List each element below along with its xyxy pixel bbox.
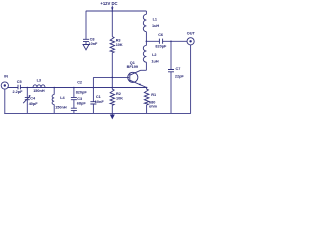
svg-text:10nF: 10nF (89, 42, 99, 46)
svg-text:OUT: OUT (187, 32, 196, 36)
wire C2 top lead (73, 88, 75, 98)
capacitor C1 (90, 102, 96, 104)
wire +12V tick (111, 6, 113, 11)
svg-text:ohm: ohm (149, 104, 158, 108)
svg-text:1uH: 1uH (151, 59, 158, 63)
svg-text:820pF: 820pF (76, 90, 88, 94)
inductor L2 (145, 41, 147, 45)
svg-text:820pF: 820pF (155, 45, 167, 49)
wire C1 upper lead (92, 77, 94, 101)
svg-text:C2: C2 (77, 80, 82, 84)
capacitor C5 (18, 85, 20, 90)
wire collector (141, 69, 147, 71)
junction C1/mid rail (93, 87, 95, 89)
wire base line (93, 76, 129, 78)
wire L4 top lead (53, 88, 55, 95)
svg-text:C8: C8 (90, 38, 95, 42)
wire ground stub (111, 113, 113, 114)
svg-text:IN: IN (4, 74, 8, 78)
svg-text:L1: L1 (153, 18, 157, 22)
svg-text:R2: R2 (116, 92, 121, 96)
capacitor C7 (168, 70, 174, 72)
svg-text:2.2pF: 2.2pF (13, 90, 24, 94)
wire bias column (111, 11, 113, 88)
svg-text:10K: 10K (116, 43, 123, 47)
wire IN ground drop (4, 89, 6, 113)
connector OUT (187, 38, 194, 45)
resistor R2 (110, 89, 115, 105)
svg-text:10K: 10K (116, 96, 123, 100)
resistor R3 (110, 37, 115, 53)
junction 12V node (112, 10, 114, 12)
svg-text:1uH: 1uH (152, 24, 159, 28)
inductor L3 (33, 85, 45, 88)
svg-text:C5: C5 (17, 80, 22, 84)
junction collector node (146, 41, 148, 43)
inductor L1 (145, 11, 147, 14)
wire OUT ground drop (190, 45, 192, 114)
svg-text:+12V DC: +12V DC (100, 1, 117, 6)
wire ground rail (4, 112, 191, 114)
transistor Q1 (128, 72, 138, 82)
svg-text:L2: L2 (152, 53, 156, 57)
svg-text:C1: C1 (96, 95, 101, 99)
junction C2 (73, 87, 75, 89)
svg-text:R1: R1 (151, 93, 156, 97)
ground under C8 (83, 45, 89, 50)
capacitor C3 (71, 108, 77, 110)
wire top rail (86, 10, 147, 12)
junction C4 (27, 87, 29, 89)
junction base/divider (112, 77, 114, 79)
junction divider/mid rail (112, 87, 114, 89)
svg-text:40pF: 40pF (29, 102, 39, 106)
svg-text:C3: C3 (77, 97, 82, 101)
svg-text:10nF: 10nF (95, 100, 105, 104)
resistor R1 (144, 89, 149, 105)
svg-text:150nH: 150nH (33, 89, 45, 93)
wire mid signal rail (8, 87, 147, 89)
svg-text:68pF: 68pF (77, 102, 87, 106)
svg-text:C7: C7 (176, 67, 181, 71)
wire C7 top lead (170, 41, 172, 69)
capacitor C2 (71, 97, 77, 99)
svg-text:22pF: 22pF (175, 75, 185, 79)
junction L4 (53, 87, 55, 89)
junction emitter node (146, 87, 148, 89)
inductor L4 (52, 95, 54, 105)
junction C7 (170, 41, 172, 43)
wire C4 top lead (26, 88, 28, 98)
svg-text:150nH: 150nH (55, 106, 67, 110)
svg-text:L3: L3 (37, 79, 41, 83)
svg-text:C6: C6 (158, 33, 163, 37)
capacitor C8 (83, 39, 89, 41)
variable capacitor C4 (25, 97, 30, 99)
connector IN (1, 82, 8, 89)
wire output line (146, 40, 187, 42)
ground (bottom) (110, 115, 115, 120)
svg-text:BF199: BF199 (127, 65, 138, 69)
capacitor C6 (159, 39, 162, 44)
wire C8 top lead (85, 11, 87, 39)
